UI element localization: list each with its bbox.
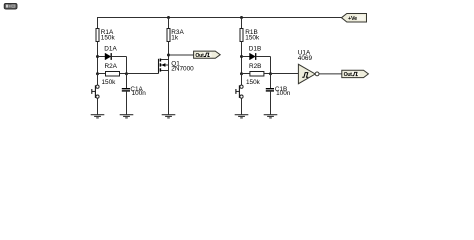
wire switch A bottom <box>97 98 99 115</box>
svg-text:Out: Out <box>344 72 353 78</box>
wire C1A bottom <box>126 92 128 115</box>
flag Out 1 <box>194 51 221 59</box>
transistor Q1 <box>159 59 195 74</box>
node R2A right <box>125 72 128 75</box>
svg-text:D1B: D1B <box>249 45 261 52</box>
wire to Out flag 1 <box>169 54 194 56</box>
svg-text:150k: 150k <box>101 34 116 41</box>
wire top rail <box>97 17 342 19</box>
wire switch B top <box>241 74 243 86</box>
svg-text:1k: 1k <box>171 34 179 41</box>
svg-text:100n: 100n <box>276 90 291 97</box>
corner badge <box>4 3 17 9</box>
resistor R3A <box>167 29 184 42</box>
node R2B left <box>240 72 243 75</box>
wire C1A top <box>126 74 128 89</box>
svg-text:+Ve: +Ve <box>348 16 357 22</box>
ground under switch A <box>91 115 105 118</box>
wire R1B top <box>241 18 243 30</box>
node B rail junction <box>240 16 243 19</box>
wire switch B bottom <box>241 98 243 115</box>
ground under switch B <box>235 115 249 118</box>
wire R1B bottom <box>241 42 243 75</box>
resistor R2A <box>98 63 127 86</box>
svg-text:150k: 150k <box>102 79 117 86</box>
switch SW-B <box>236 85 243 98</box>
capacitor C1B <box>266 86 291 97</box>
flag +Ve <box>342 14 367 23</box>
node A rail junction <box>167 16 170 19</box>
wire R3A top <box>168 18 170 30</box>
svg-text:2N7000: 2N7000 <box>171 66 194 73</box>
svg-text:100n: 100n <box>132 90 147 97</box>
svg-text:150k: 150k <box>246 79 261 86</box>
resistor R1A <box>96 29 115 42</box>
svg-text:R2A: R2A <box>105 63 118 70</box>
capacitor C1A <box>122 86 146 97</box>
wire diode to R2B right <box>270 57 272 75</box>
svg-text:Out: Out <box>195 53 204 59</box>
svg-text:D1A: D1A <box>104 45 117 52</box>
wire R3A bottom to drain <box>168 42 170 60</box>
svg-text:R2B: R2B <box>249 63 261 70</box>
wire C1B top <box>270 74 272 89</box>
ground under C1B <box>264 115 278 118</box>
svg-text:150k: 150k <box>245 34 260 41</box>
wire source to ground <box>168 71 170 115</box>
wire gate <box>127 73 159 75</box>
resistor R2B <box>242 63 271 86</box>
wire R1A top <box>97 17 99 29</box>
wire inverter input <box>271 73 299 75</box>
ground under C1A <box>120 115 134 118</box>
switch SW-A <box>92 85 99 98</box>
node drain tap <box>167 54 170 57</box>
wire diode to R2A right <box>126 57 128 75</box>
diode D1A <box>98 45 127 60</box>
wire C1B bottom <box>270 92 272 115</box>
wire R1A bottom <box>97 42 99 75</box>
resistor R1B <box>240 29 260 42</box>
op-amp U1A inverter 4069 <box>298 50 342 84</box>
ground under Q1 <box>162 115 176 118</box>
node diode tap B <box>240 55 243 58</box>
diode D1B <box>242 45 271 60</box>
flag Out 2 <box>342 70 369 78</box>
node diode tap A <box>96 55 99 58</box>
node R2A left <box>96 72 99 75</box>
wire switch A top <box>97 74 99 86</box>
node R2B right <box>269 72 272 75</box>
svg-text:4069: 4069 <box>298 55 313 62</box>
